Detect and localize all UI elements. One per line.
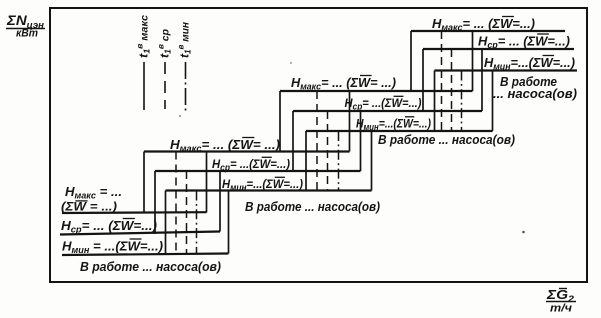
level line H min group 3 <box>306 130 493 132</box>
riser maks right g1 <box>206 152 208 213</box>
plot frame <box>50 8 587 282</box>
riser sr left g3 <box>292 111 294 171</box>
svg-text:кВт: кВт <box>16 28 38 40</box>
riser min left g3 <box>305 131 307 191</box>
t-line sr overlap 2-3 (dashed) <box>327 111 329 191</box>
level line H min group 1 <box>62 254 229 256</box>
level line H maks group 2 <box>144 150 350 152</box>
x-axis label sigma G2 / t/ch <box>546 287 576 315</box>
t-line sr overlap 1-2 (dashed) <box>186 171 188 255</box>
W overbar g3 min label <box>405 116 414 118</box>
y-axis label sigma N tsen / kVt <box>6 12 45 40</box>
riser maks right g3 <box>472 31 474 91</box>
svg-text:В работе ... насоса(ов): В работе ... насоса(ов) <box>245 199 380 214</box>
W overbar g2 maks label <box>242 137 254 139</box>
scan speck <box>522 231 525 234</box>
svg-text:В работе ... насоса(ов): В работе ... насоса(ов) <box>80 259 221 274</box>
riser sr right g3 <box>481 49 483 111</box>
scan speck <box>290 62 292 64</box>
riser sr left g4 <box>422 49 424 111</box>
level line H sr group 1 <box>60 232 220 235</box>
riser sr left g2 <box>154 171 156 234</box>
t-line maks overlap 2-3 (dashed) <box>316 91 318 191</box>
W overbar g4 maks label <box>502 16 514 18</box>
W overbar g1 maks label <box>75 200 87 202</box>
level line H sr group 3 <box>293 110 482 112</box>
riser min left g2 <box>165 191 167 255</box>
W overbar g2 min label <box>275 176 285 178</box>
riser maks left g4 <box>410 31 412 91</box>
W overbar g1 sr label <box>123 218 135 220</box>
level line H maks group 4 <box>411 30 565 32</box>
t-line min overlap 3-4 (dash-dot) <box>461 71 463 132</box>
W overbar g2 sr label <box>262 156 272 158</box>
t-line sr overlap 3-4 (dashed) <box>451 49 453 131</box>
W overbar g3 sr label <box>394 95 404 97</box>
riser min left g4 <box>434 71 436 132</box>
riser maks right g2 <box>349 91 351 152</box>
legend line t1 min (dash-dot) <box>185 62 187 111</box>
legend line t1 sr (dashed) <box>164 62 166 109</box>
W overbar g4 sr label <box>537 33 549 35</box>
level line H min group 4 <box>435 69 578 71</box>
W overbar g1 min label <box>130 238 142 240</box>
riser sr right g2 <box>360 111 362 171</box>
riser min right g2 <box>371 131 373 191</box>
W overbar g4 min label <box>543 55 555 57</box>
W overbar g3 maks label <box>360 75 372 77</box>
level line H min group 2 <box>166 189 372 191</box>
level line H maks group 3 <box>280 90 473 92</box>
riser maks left g2 <box>143 152 145 214</box>
legend line t1 maks (solid) <box>143 62 145 110</box>
riser sr right g1 <box>219 171 221 232</box>
level line H sr group 4 <box>423 48 574 50</box>
riser maks left g3 <box>279 91 281 152</box>
t-line maks overlap 1-2 (dashed) <box>175 152 177 255</box>
scan speck <box>179 115 181 117</box>
svg-text:т/ч: т/ч <box>550 303 573 315</box>
t-line min overlap 1-2 (dash-dot) <box>196 191 198 255</box>
riser min right g1 <box>228 191 230 254</box>
level line H maks group 1 <box>62 211 207 214</box>
svg-text:... насоса(ов): ... насоса(ов) <box>493 86 577 101</box>
svg-text:(ΣW = ...): (ΣW = ...) <box>61 200 117 214</box>
level line H sr group 2 <box>155 170 361 172</box>
riser min right g3 <box>492 71 494 132</box>
svg-text:В работе ... насоса(ов): В работе ... насоса(ов) <box>378 132 515 147</box>
t-line maks overlap 3-4 (dashed) <box>441 31 443 131</box>
t-line min overlap 2-3 (dash-dot) <box>338 131 340 191</box>
